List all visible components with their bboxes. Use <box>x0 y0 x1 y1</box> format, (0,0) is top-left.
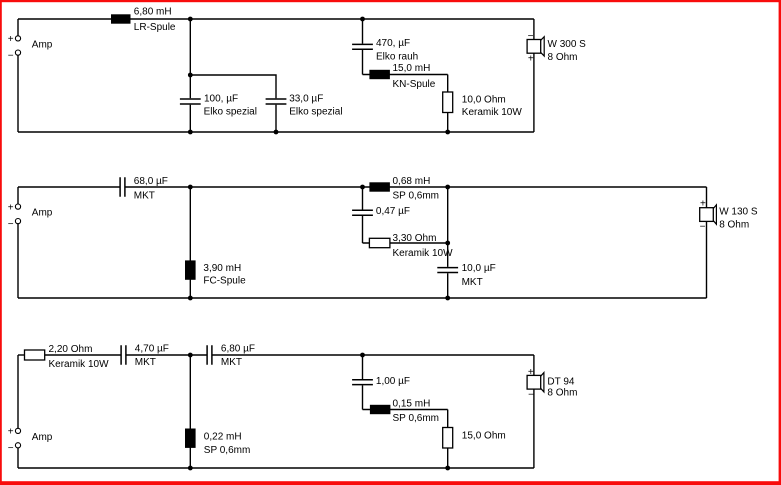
wire speaker W300S upper lead <box>533 19 535 40</box>
wire 1,00µF upper lead <box>362 355 364 379</box>
svg-text:15,0 Ohm: 15,0 Ohm <box>462 431 506 442</box>
svg-text:KN-Spule: KN-Spule <box>393 79 436 90</box>
wire notch sub-rail through 3,30 Ohm <box>363 242 448 244</box>
svg-text:33,0 µF: 33,0 µF <box>289 94 323 105</box>
amp terminal + circuit1 <box>15 36 20 41</box>
wire left rail upper (Amp+ to top rail) <box>17 19 19 36</box>
node junction bottom rail / resistor <box>445 130 450 135</box>
svg-text:FC-Spule: FC-Spule <box>203 275 246 286</box>
capacitor 33,0 µF Elko spezial <box>266 99 287 104</box>
wire SP-Spule branch vertical <box>189 355 191 468</box>
wire cap 33µF lower lead <box>275 105 277 132</box>
svg-text:SP 0,6mm: SP 0,6mm <box>204 445 251 456</box>
capacitor 10,0 µF MKT (shunt) <box>437 268 458 273</box>
svg-text:15,0 mH: 15,0 mH <box>393 63 431 74</box>
svg-text:Elko rauh: Elko rauh <box>376 52 418 63</box>
capacitor 100, µF Elko spezial <box>180 99 201 104</box>
wire left rail lower circuit3 <box>17 448 19 468</box>
capacitor 0,47 µF <box>352 210 373 215</box>
svg-text:68,0 µF: 68,0 µF <box>134 176 168 187</box>
wire bottom rail circuit2 <box>18 297 707 299</box>
node junction bottom rail / cap100 <box>188 130 193 135</box>
wire 0,47µF upper lead <box>362 187 364 210</box>
inductor 3,90 mH FC-Spule <box>185 260 196 279</box>
svg-text:0,22 mH: 0,22 mH <box>204 431 242 442</box>
resistor 2,20 Ohm Keramik 10W <box>25 350 45 360</box>
capacitor 6,80 µF MKT (series) <box>207 345 212 364</box>
svg-text:1,00 µF: 1,00 µF <box>376 376 410 387</box>
wire top rail cap2 to speaker <box>212 354 534 356</box>
svg-text:4,70 µF: 4,70 µF <box>135 343 169 354</box>
wire left rail lower (Amp- to bottom rail) <box>17 55 19 132</box>
wire bottom rail circuit3 <box>18 467 534 469</box>
wire left rail upper circuit3 <box>17 355 19 428</box>
wire speaker W130S upper lead <box>706 187 708 208</box>
node junction top rail / notch branch right <box>445 185 450 190</box>
svg-text:10,0 Ohm: 10,0 Ohm <box>462 94 506 105</box>
wire shunt branch 1 vertical <box>189 19 191 98</box>
speaker W 300 S horn <box>541 37 545 56</box>
svg-text:MKT: MKT <box>134 190 155 201</box>
svg-text:0,15 mH: 0,15 mH <box>393 398 431 409</box>
wire cap 100µF lower lead <box>189 105 191 132</box>
svg-text:MKT: MKT <box>135 357 156 368</box>
node junction bottom rail / shunt cap <box>445 296 450 301</box>
inductor 0,68 mH SP 0,6mm <box>369 182 390 191</box>
node junction bottom rail / cap33 <box>274 130 279 135</box>
svg-text:DT 94: DT 94 <box>547 376 574 387</box>
node junction top rail / RC branch <box>360 17 365 22</box>
svg-text:3,90 mH: 3,90 mH <box>203 263 241 274</box>
inductor 6,80 mH LR-Spule <box>111 14 131 23</box>
svg-text:W 130 S: W 130 S <box>719 207 758 218</box>
wire 0,47µF lower lead <box>362 216 364 243</box>
svg-text:6,80 µF: 6,80 µF <box>221 343 255 354</box>
svg-text:470, µF: 470, µF <box>376 38 410 49</box>
amp terminal - circuit3 <box>15 443 20 448</box>
node junction top rail / shunt branch 1 <box>188 17 193 22</box>
svg-text:−: − <box>8 443 14 454</box>
svg-text:−: − <box>8 50 14 61</box>
svg-text:MKT: MKT <box>221 357 242 368</box>
node junction top rail / notch branch left <box>360 185 365 190</box>
svg-text:0,68 mH: 0,68 mH <box>393 176 431 187</box>
node junction top rail / FC-Spule <box>188 185 193 190</box>
wire speaker W300S lower lead <box>533 53 535 132</box>
wire 1,00µF lower lead <box>362 385 364 409</box>
wire speaker DT94 upper lead <box>533 355 535 375</box>
amp terminal - circuit1 <box>15 50 20 55</box>
wire left rail lower circuit2 <box>17 224 19 298</box>
speaker W 130 S horn <box>713 205 716 224</box>
wire left rail upper circuit2 <box>17 187 19 204</box>
wire top rail cap1 to cap2 <box>126 354 207 356</box>
svg-text:+: + <box>700 199 706 210</box>
svg-text:LR-Spule: LR-Spule <box>134 22 176 33</box>
svg-text:Amp: Amp <box>32 208 53 219</box>
svg-text:Amp: Amp <box>32 432 53 443</box>
wire sub-rail to second cap <box>190 75 276 98</box>
speaker DT 94 horn <box>541 373 544 392</box>
svg-text:100, µF: 100, µF <box>204 94 238 105</box>
resistor 15,0 Ohm <box>443 428 453 449</box>
wire top rail circuit2 left of series cap <box>18 186 120 188</box>
resistor 3,30 Ohm Keramik 10W <box>369 238 390 247</box>
svg-text:6,80 mH: 6,80 mH <box>134 7 172 18</box>
wire resistor 15 Ohm lower lead <box>447 448 449 468</box>
wire shunt sub-rail through 0,15 mH <box>363 409 448 411</box>
wire top rail circuit2 right of series cap <box>125 186 707 188</box>
svg-text:SP 0,6mm: SP 0,6mm <box>393 413 440 424</box>
wire top rail resistor to cap1 <box>45 354 121 356</box>
wire sub-rail through KN-Spule <box>363 74 448 76</box>
speaker W 130 S body <box>700 208 714 222</box>
wire speaker DT94 lower lead <box>533 389 535 468</box>
svg-text:Keramik 10W: Keramik 10W <box>393 248 454 259</box>
node junction bottom rail / SP-Spule <box>188 466 193 471</box>
border frame <box>0 0 781 2</box>
node junction top rail / SP-Spule <box>188 353 193 358</box>
wire top rail circuit3 left segment <box>18 354 25 356</box>
svg-text:Amp: Amp <box>32 39 53 50</box>
wire resistor 10 Ohm upper lead <box>447 75 449 93</box>
resistor 10,0 Ohm Keramik 10W <box>443 92 453 113</box>
svg-text:8 Ohm: 8 Ohm <box>547 388 577 399</box>
svg-text:Elko spezial: Elko spezial <box>204 107 257 118</box>
wire speaker W130S lower lead <box>706 221 708 298</box>
amp terminal + circuit3 <box>15 428 20 433</box>
svg-text:−: − <box>528 389 534 400</box>
amp terminal + circuit2 <box>15 204 20 209</box>
node junction bottom rail / 15 Ohm <box>445 466 450 471</box>
svg-text:Keramik 10W: Keramik 10W <box>49 359 110 370</box>
svg-text:10,0 µF: 10,0 µF <box>462 263 496 274</box>
svg-text:W 300 S: W 300 S <box>548 39 587 50</box>
svg-text:−: − <box>528 31 534 42</box>
inductor 15,0 mH KN-Spule <box>369 70 390 79</box>
svg-text:+: + <box>528 367 534 378</box>
wire 470µF lower lead <box>362 50 364 75</box>
svg-text:+: + <box>8 34 14 45</box>
wire resistor 15 Ohm upper lead <box>447 410 449 428</box>
svg-text:−: − <box>700 221 706 232</box>
capacitor 4,70 µF MKT (series) <box>121 345 126 364</box>
wire shunt branch vertical lower <box>447 273 449 298</box>
capacitor 1,00 µF <box>352 380 373 385</box>
svg-text:Elko spezial: Elko spezial <box>289 107 342 118</box>
svg-text:SP 0,6mm: SP 0,6mm <box>393 190 440 201</box>
svg-text:−: − <box>8 219 14 230</box>
svg-text:+: + <box>528 53 534 64</box>
inductor 0,15 mH SP 0,6mm <box>370 405 391 414</box>
svg-text:3,30 Ohm: 3,30 Ohm <box>393 233 437 244</box>
speaker W 300 S body <box>527 40 541 54</box>
wire FC-Spule branch vertical <box>189 187 191 298</box>
svg-text:0,47 µF: 0,47 µF <box>376 206 410 217</box>
wire bottom rail circuit1 <box>18 131 534 133</box>
amp terminal - circuit2 <box>15 219 20 224</box>
node junction top rail / shunt RLC branch <box>360 353 365 358</box>
svg-text:MKT: MKT <box>462 277 483 288</box>
node junction notch sub-rail / shunt cap <box>445 241 450 246</box>
svg-text:+: + <box>8 427 14 438</box>
wire 470µF upper lead <box>362 19 364 44</box>
svg-text:8 Ohm: 8 Ohm <box>719 220 749 231</box>
wire top rail circuit1 <box>18 18 534 20</box>
wire shunt branch vertical upper <box>447 187 449 267</box>
svg-text:8 Ohm: 8 Ohm <box>548 52 578 63</box>
capacitor 470, µF Elko rauh <box>352 44 373 49</box>
wire resistor 10 Ohm lower lead <box>447 113 449 133</box>
speaker DT 94 body <box>527 375 541 389</box>
capacitor 68,0 µF MKT (series) <box>120 177 125 196</box>
svg-text:Keramik 10W: Keramik 10W <box>462 107 523 118</box>
svg-text:2,20 Ohm: 2,20 Ohm <box>49 344 93 355</box>
svg-text:+: + <box>8 202 14 213</box>
inductor 0,22 mH SP 0,6mm <box>185 429 196 448</box>
node junction bottom rail / FC-Spule <box>188 296 193 301</box>
node junction shunt sub-wire <box>188 73 193 78</box>
